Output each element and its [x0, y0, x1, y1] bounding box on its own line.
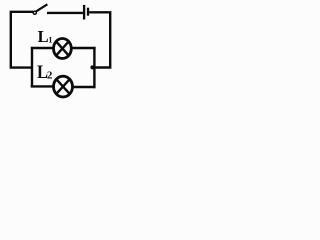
svg-text:1: 1 [48, 34, 52, 44]
svg-text:2: 2 [47, 69, 53, 81]
svg-text:L: L [38, 27, 49, 46]
